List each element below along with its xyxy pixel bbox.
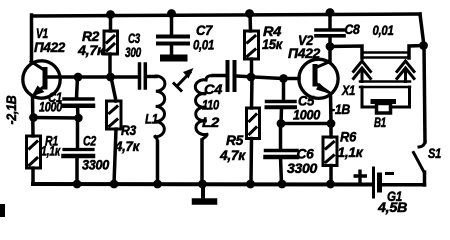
svg-text:110: 110: [202, 97, 219, 113]
node right border X1 junction: [419, 41, 428, 50]
wire R1 to bottom rail: [31, 168, 35, 184]
capacitor C3: [140, 64, 157, 88]
wire right border (top corner down to S1): [420, 14, 425, 142]
capacitor C7: [158, 14, 188, 58]
svg-text:R5: R5: [226, 132, 244, 148]
node emitter-R6 junction: [327, 119, 336, 128]
capacitor C8: [316, 13, 344, 47]
battery G1: [374, 168, 380, 197]
svg-text:S1: S1: [428, 145, 441, 161]
svg-text:С4: С4: [204, 81, 223, 97]
svg-text:4,7к: 4,7к: [219, 147, 246, 163]
wire L2 bottom to rail: [200, 140, 204, 184]
svg-text:0,01: 0,01: [193, 38, 214, 53]
svg-text:R6: R6: [340, 129, 356, 145]
node C5-C6 junction: [277, 119, 286, 128]
svg-text:15к: 15к: [262, 36, 283, 52]
wire V1 base: [47, 75, 138, 79]
ground: [195, 184, 214, 202]
wire bottom rail: [33, 182, 372, 187]
wire emitter to C1 bottom: [33, 116, 78, 120]
svg-text:С2: С2: [83, 133, 96, 149]
node rail C2: [73, 180, 82, 189]
wire left border top (to V1 collector): [30, 15, 34, 62]
svg-text:300: 300: [125, 44, 141, 60]
transistor V1: [23, 61, 60, 98]
svg-text:R3: R3: [121, 122, 136, 138]
svg-text:П422: П422: [288, 45, 321, 61]
connector X1 right plug: [397, 61, 414, 82]
resistor R5: [247, 77, 260, 184]
svg-text:L1: L1: [145, 111, 158, 127]
resistor R1: [27, 136, 41, 168]
svg-text:1000: 1000: [39, 99, 62, 115]
svg-text:L2: L2: [202, 114, 220, 130]
node C4-R4 junction: [247, 73, 256, 82]
capacitor C6: [266, 124, 298, 185]
svg-text:4,7к: 4,7к: [114, 138, 140, 154]
wire C8 to connector X1: [330, 46, 362, 58]
resistor R3: [107, 77, 122, 184]
capacitor C2: [64, 118, 94, 184]
svg-text:1000: 1000: [293, 107, 320, 123]
svg-text:-2,1В: -2,1В: [3, 95, 19, 124]
node top rail R4: [245, 9, 254, 18]
capacitor C5: [267, 79, 296, 124]
switch S1: [414, 142, 426, 185]
connector X1 left plug: [354, 61, 371, 82]
node C8 bottom junction: [326, 42, 335, 51]
capacitor C4: [213, 62, 283, 90]
inductor L1: [155, 76, 165, 143]
capacitor C1: [64, 77, 93, 118]
wire C5-R6 link: [281, 122, 331, 126]
svg-text:-1В: -1В: [331, 101, 350, 117]
node base-C1 junction: [74, 73, 83, 82]
headphone B1 capsule: [373, 102, 394, 114]
node rail ground: [198, 180, 207, 189]
node top rail R2: [106, 10, 115, 19]
node rail C6: [278, 180, 287, 189]
node top rail C7: [167, 9, 176, 18]
svg-text:0,01: 0,01: [373, 23, 394, 38]
wire V2 collector up: [328, 47, 332, 62]
wire border to X1 right: [409, 46, 423, 59]
wire top supply rail: [32, 14, 420, 16]
node V2 base junction: [279, 74, 288, 83]
node rail L1: [153, 180, 162, 189]
svg-text:1,1к: 1,1к: [41, 143, 61, 159]
connector X1 socket bars: [362, 53, 409, 58]
inductor L2: [195, 76, 214, 142]
node R2-R3 junction: [106, 73, 115, 82]
node C1-C2 junction: [74, 114, 82, 122]
svg-text:3300: 3300: [287, 160, 318, 176]
wire headphone loop: [360, 82, 410, 108]
wire V2 emitter down: [329, 94, 333, 124]
resistor R2: [104, 15, 118, 77]
svg-text:П422: П422: [34, 39, 65, 55]
svg-text:3300: 3300: [82, 157, 109, 173]
node top rail C8: [326, 8, 335, 17]
node rail R6: [326, 180, 335, 189]
node rail R3: [110, 180, 119, 189]
node emitter-wire junction: [29, 113, 38, 122]
svg-text:В1: В1: [374, 114, 386, 130]
svg-text:С7: С7: [196, 23, 214, 38]
edge artifact: [0, 204, 5, 217]
resistor R4: [245, 14, 259, 77]
label battery minus: [385, 172, 394, 175]
svg-text:1,1к: 1,1к: [338, 144, 364, 160]
wire battery to switch: [383, 183, 425, 187]
svg-text:X1: X1: [341, 82, 355, 98]
wire V1 emitter down left column: [31, 96, 35, 136]
svg-text:С8: С8: [345, 22, 361, 37]
svg-text:4,7к: 4,7к: [77, 42, 105, 58]
wire L1 bottom to rail: [156, 142, 160, 184]
transistor V2: [284, 59, 338, 98]
label battery plus: [354, 170, 395, 183]
resistor R6: [323, 124, 337, 185]
node rail R5: [246, 180, 255, 189]
svg-text:4,5В: 4,5В: [377, 199, 407, 215]
tuning arrow: [174, 68, 194, 91]
